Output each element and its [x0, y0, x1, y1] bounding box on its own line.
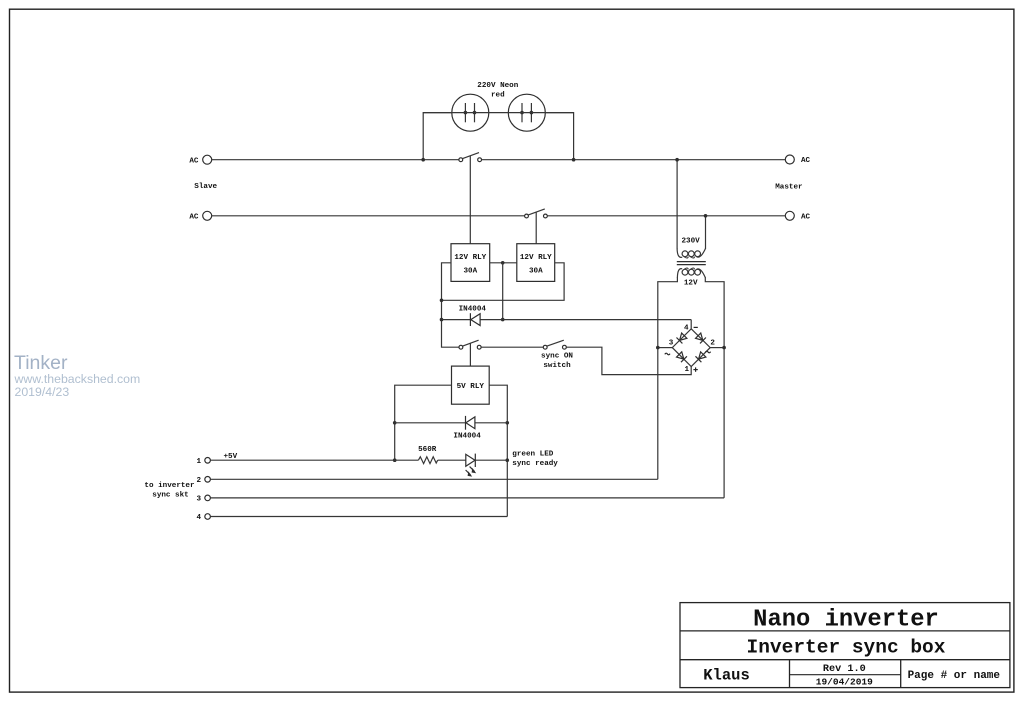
label bridge tilde right — [705, 351, 710, 353]
svg-text:Slave: Slave — [194, 183, 217, 191]
svg-text:sync ready: sync ready — [512, 460, 558, 468]
junction right loop diode2 — [506, 421, 510, 425]
svg-text:sync ON: sync ON — [541, 352, 573, 360]
junction bridge pin2 — [722, 346, 726, 350]
svg-text:2019/4/23: 2019/4/23 — [15, 385, 70, 399]
wire AC line 1 left segment — [212, 159, 459, 161]
wire relay2 right loop — [442, 263, 565, 301]
resistor R1 560R — [418, 457, 437, 464]
junction left loop diode2 — [393, 421, 397, 425]
svg-text:IN4004: IN4004 — [453, 432, 481, 440]
switch S4 sync ON switch — [543, 345, 547, 349]
diode D1 IN4004 — [442, 319, 471, 321]
switch S2 on AC line 2 — [525, 214, 529, 218]
bridge diode upper-left — [676, 333, 687, 344]
wire terminal3 — [211, 497, 725, 499]
bridge diode lower-left — [676, 351, 687, 362]
svg-text:30A: 30A — [463, 268, 477, 276]
junction primary right AC2 — [704, 214, 708, 218]
svg-text:AC: AC — [801, 214, 811, 222]
wire 5V relay right loop — [489, 385, 507, 516]
junction right loop led line — [506, 458, 510, 462]
wire AC line 1 right segment — [482, 159, 786, 161]
wire S3 to S4 — [481, 346, 543, 348]
wire bridge pin3 — [658, 347, 673, 349]
svg-text:4: 4 — [684, 325, 689, 333]
wire terminal2 — [211, 478, 658, 480]
label bridge tilde left — [665, 353, 670, 355]
junction left vertical y300 — [440, 299, 444, 303]
terminal AC slave line2 — [203, 211, 212, 220]
transformer T1 primary lead left — [676, 160, 678, 249]
neon lamp L2 — [508, 94, 545, 131]
svg-text:to inverter: to inverter — [144, 482, 195, 490]
LED arrows — [466, 467, 477, 477]
junction primary left AC1 — [675, 158, 679, 162]
wire secondary right step — [705, 277, 724, 498]
svg-text:www.thebackshed.com: www.thebackshed.com — [14, 372, 141, 386]
svg-text:230V: 230V — [681, 238, 700, 246]
junction bridge pin3 — [656, 346, 660, 350]
title block v divider 2 — [900, 660, 902, 688]
svg-text:2: 2 — [710, 340, 715, 348]
junction lamp right — [572, 158, 576, 162]
svg-text:Master: Master — [775, 184, 803, 192]
title block row line 1 — [680, 630, 1010, 632]
bridge diode upper-right — [695, 333, 706, 344]
wire lamp left drop — [423, 113, 452, 160]
wire bridge pin2 — [710, 347, 724, 349]
svg-text:Klaus: Klaus — [703, 667, 750, 685]
svg-text:red: red — [491, 91, 505, 99]
svg-text:1: 1 — [685, 366, 690, 374]
svg-text:Inverter sync box: Inverter sync box — [747, 636, 946, 658]
svg-text:12V: 12V — [684, 280, 698, 288]
bridge diode lower-right — [695, 351, 706, 362]
terminal 1 — [205, 458, 211, 464]
svg-text:3: 3 — [669, 340, 674, 348]
svg-text:4: 4 — [196, 514, 201, 522]
wire S3 actuator to 5V relay — [469, 343, 471, 366]
switch S3 relay contact — [459, 345, 463, 349]
label bridge minus — [694, 326, 698, 328]
terminal AC master line2 — [785, 211, 794, 220]
transformer T1 primary winding — [677, 249, 682, 258]
wire terminal1 to resistor — [211, 459, 419, 461]
svg-text:12V RLY: 12V RLY — [520, 254, 552, 262]
wire vertical junction to diode line — [502, 263, 504, 320]
wire lamp through line — [423, 112, 573, 114]
svg-text:2: 2 — [196, 477, 201, 485]
wire relay1 left to vertical — [442, 263, 460, 347]
wire secondary left step — [658, 277, 678, 479]
svg-text:220V Neon: 220V Neon — [477, 82, 518, 90]
title block v divider 1 — [789, 660, 791, 688]
svg-text:IN4004: IN4004 — [459, 305, 487, 313]
wire lamp right drop — [545, 113, 573, 160]
junction relay interconnect — [501, 261, 505, 265]
svg-text:19/04/2019: 19/04/2019 — [816, 677, 873, 688]
wire AC line 2 left segment — [212, 215, 525, 217]
wire 5V relay left loop — [395, 385, 452, 460]
transformer core — [677, 261, 706, 263]
title block outer — [680, 603, 1010, 688]
svg-text:Tinker: Tinker — [14, 352, 68, 374]
wire S2 actuator to relay2 — [535, 212, 537, 244]
junction x502 diode line — [501, 318, 505, 322]
terminal AC slave line1 — [203, 155, 212, 164]
svg-text:sync skt: sync skt — [152, 491, 188, 499]
svg-text:switch: switch — [543, 362, 571, 370]
svg-text:3: 3 — [196, 496, 201, 504]
svg-text:12V RLY: 12V RLY — [454, 254, 486, 262]
wire terminal4 — [211, 516, 508, 518]
transformer T1 primary lead right — [705, 216, 707, 249]
junction lamp left — [421, 158, 425, 162]
title block row line 2 — [680, 659, 1010, 661]
svg-text:Page # or name: Page # or name — [908, 670, 1001, 682]
junction left loop led line — [393, 458, 397, 462]
bridge rectifier B1 diamond — [672, 329, 710, 367]
terminal 3 — [205, 495, 211, 501]
relay K1 box 12V RLY 30A — [451, 244, 490, 282]
svg-text:AC: AC — [801, 157, 811, 165]
svg-text:Rev 1.0: Rev 1.0 — [823, 664, 866, 675]
wire S4 to bridge plus — [566, 347, 691, 374]
transformer T1 secondary winding — [677, 269, 682, 278]
svg-text:5V RLY: 5V RLY — [457, 383, 485, 391]
relay K2 box 12V RLY 30A — [517, 244, 555, 282]
relay K3 box 5V RLY — [452, 366, 490, 404]
svg-text:30A: 30A — [529, 268, 543, 276]
neon lamp L1 — [452, 94, 489, 131]
svg-text:green LED: green LED — [512, 451, 553, 459]
switch S1 on AC line 1 — [459, 158, 463, 162]
LED D3 green — [466, 454, 475, 466]
wire S1 actuator to relay1 — [469, 156, 471, 244]
wire bridge pin4 up — [690, 320, 692, 329]
svg-text:Nano inverter: Nano inverter — [753, 606, 939, 633]
diode D2 IN4004 — [395, 422, 466, 424]
terminal 4 — [205, 514, 211, 520]
wire relay interconnect — [490, 262, 517, 264]
svg-text:1: 1 — [196, 458, 201, 466]
wire resistor to LED — [438, 459, 466, 461]
svg-text:560R: 560R — [418, 446, 437, 454]
wire AC line 2 right segment — [547, 215, 785, 217]
title block rev divider — [790, 674, 901, 676]
terminal 2 — [205, 477, 211, 483]
svg-text:AC: AC — [189, 157, 199, 165]
junction left vertical diode line — [440, 318, 444, 322]
terminal AC master line1 — [785, 155, 794, 164]
svg-text:AC: AC — [189, 214, 199, 222]
label bridge plus — [693, 367, 697, 371]
